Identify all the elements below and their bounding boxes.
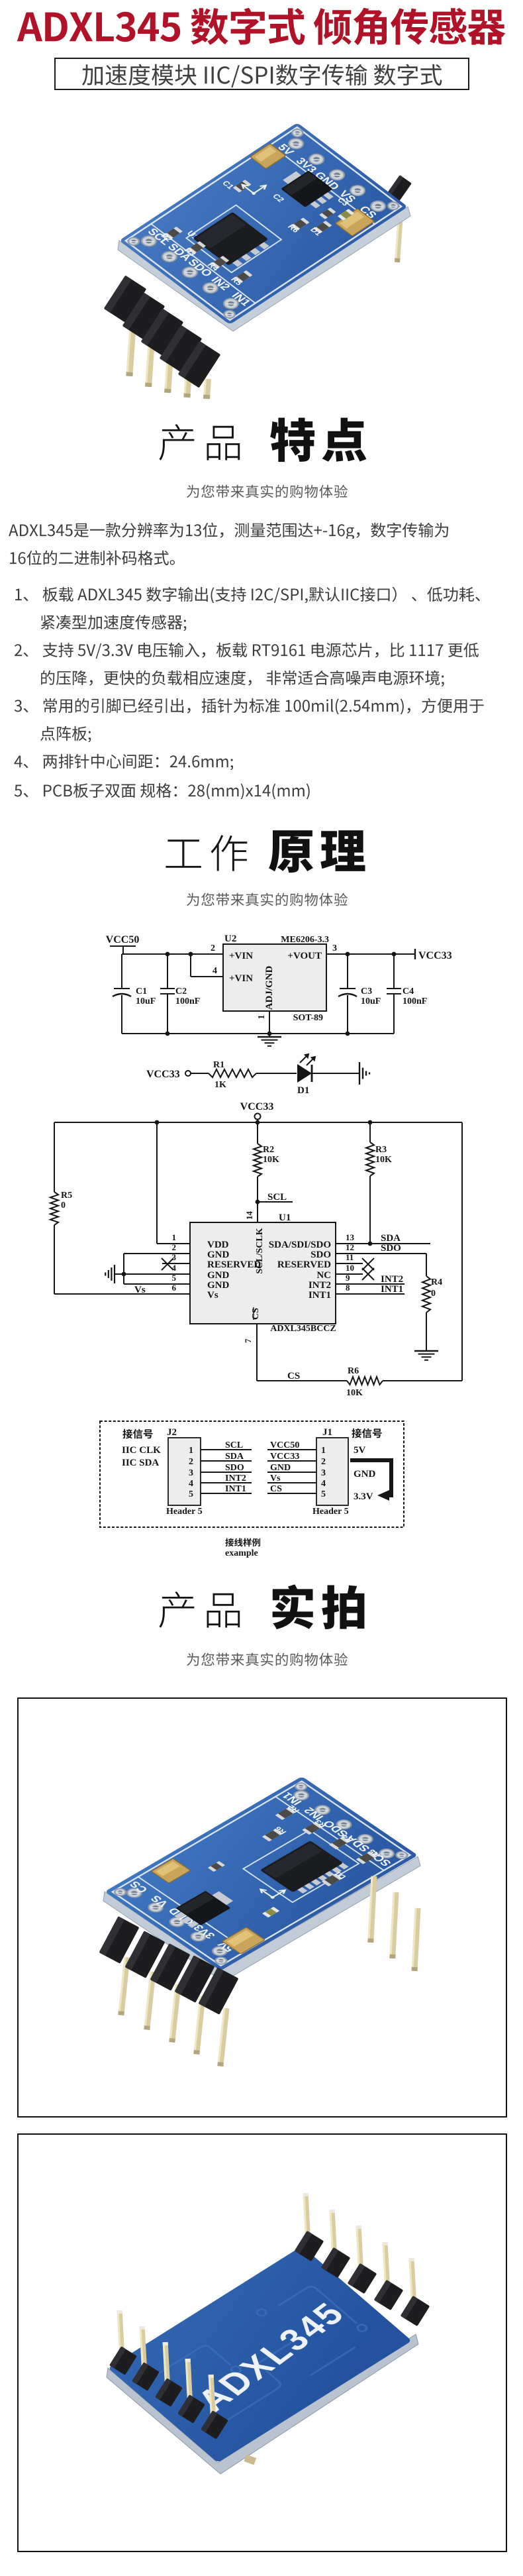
svg-text:2: 2 xyxy=(321,1457,326,1467)
top right header pins up xyxy=(303,2193,310,2237)
junction top rail pin1 branch xyxy=(155,1120,160,1125)
resistor R5 0 xyxy=(50,1191,72,1225)
junction SDA R3 xyxy=(368,1242,373,1246)
header J2 xyxy=(166,1427,203,1517)
svg-text:0: 0 xyxy=(61,1201,66,1210)
wire SDO xyxy=(336,1254,426,1276)
svg-text:Vs: Vs xyxy=(134,1285,146,1295)
wire R6 to right loop xyxy=(383,1380,462,1381)
svg-text:+VIN: +VIN xyxy=(229,973,253,984)
svg-text:VCC33: VCC33 xyxy=(270,1452,299,1462)
svg-text:1: 1 xyxy=(189,1446,193,1456)
junction output rail at C3 xyxy=(346,952,350,957)
svg-text:0: 0 xyxy=(431,1289,436,1299)
ground below R4 xyxy=(414,1351,438,1360)
wire ground rail xyxy=(122,1033,394,1034)
capacitor C4 xyxy=(387,954,427,1034)
svg-text:7: 7 xyxy=(243,1338,253,1343)
svg-text:SCL/SCLK: SCL/SCLK xyxy=(255,1228,265,1273)
svg-text:SDA: SDA xyxy=(381,1233,401,1244)
svg-text:12: 12 xyxy=(346,1242,354,1252)
wire R1 to D1 xyxy=(256,1073,297,1074)
svg-text:3.3V: 3.3V xyxy=(354,1491,373,1502)
wires J2 pins xyxy=(201,1450,252,1493)
svg-text:VCC33: VCC33 xyxy=(418,950,452,961)
junction SCL xyxy=(256,1200,260,1205)
wire VCC33 to R1 xyxy=(191,1073,209,1074)
svg-text:4: 4 xyxy=(172,1263,177,1273)
svg-text:SDA/SDI/SDO: SDA/SDI/SDO xyxy=(269,1240,331,1250)
svg-text:13: 13 xyxy=(346,1232,355,1242)
svg-text:2: 2 xyxy=(172,1242,177,1252)
junction top rail VCC33 xyxy=(256,1120,260,1125)
svg-text:10K: 10K xyxy=(263,1155,279,1165)
svg-text:SDA: SDA xyxy=(225,1452,244,1462)
svg-text:GND: GND xyxy=(270,1463,291,1473)
wires J1 pins xyxy=(267,1450,316,1493)
junction output rail at C4 xyxy=(392,952,397,957)
pin 1 of U2 to ground xyxy=(257,1011,269,1037)
regulator U2 ME6206-3.3 xyxy=(223,934,329,1023)
pcb board top face xyxy=(119,123,408,325)
right pin xyxy=(385,175,412,204)
svg-text:4: 4 xyxy=(321,1479,326,1489)
svg-text:IIC CLK: IIC CLK xyxy=(122,1445,161,1456)
junction GND bus xyxy=(122,1272,126,1277)
label 接信号 right xyxy=(352,1428,381,1438)
net labels J2 side xyxy=(225,1440,246,1494)
connector nub xyxy=(244,2455,256,2465)
board edge xyxy=(118,207,410,331)
svg-text:SCL: SCL xyxy=(267,1192,287,1203)
power net VCC33 output xyxy=(415,949,452,961)
thick arrow 3V3 to 3.3V xyxy=(350,1460,391,1501)
pin headers xyxy=(118,1957,130,2015)
resistor R3 10K xyxy=(366,1142,392,1176)
right pins xyxy=(367,1876,377,1943)
svg-text:R2: R2 xyxy=(263,1145,274,1155)
svg-text:INT2: INT2 xyxy=(309,1280,331,1291)
accelerometer chip xyxy=(231,259,242,267)
accelerometer chip xyxy=(297,1886,308,1894)
junction top rail R3 xyxy=(368,1120,373,1125)
svg-text:INT1: INT1 xyxy=(225,1484,246,1494)
label 接线样例 xyxy=(225,1538,260,1547)
pin 10 no-connect stub xyxy=(336,1268,374,1280)
ground at U1 GND pins xyxy=(105,1265,115,1283)
svg-text:1: 1 xyxy=(321,1446,326,1456)
svg-text:1K: 1K xyxy=(214,1080,226,1090)
svg-text:2: 2 xyxy=(189,1457,193,1467)
board edge xyxy=(107,2334,418,2474)
svg-text:5: 5 xyxy=(189,1489,193,1499)
svg-text:R5: R5 xyxy=(61,1191,72,1201)
wire VCC33 to R2 xyxy=(257,1122,258,1144)
svg-text:SOT-89: SOT-89 xyxy=(293,1013,323,1023)
board edge xyxy=(103,1856,420,1982)
svg-text:VCC50: VCC50 xyxy=(270,1440,299,1450)
svg-text:C2: C2 xyxy=(175,987,187,996)
svg-text:J2: J2 xyxy=(167,1427,177,1438)
svg-text:U1: U1 xyxy=(279,1212,291,1223)
svg-text:10: 10 xyxy=(346,1263,354,1273)
svg-text:11: 11 xyxy=(346,1252,354,1262)
svg-text:4: 4 xyxy=(189,1479,193,1489)
pcb board back face xyxy=(108,2246,412,2463)
power net VCC33 LED feed xyxy=(146,1069,191,1080)
svg-text:CS: CS xyxy=(287,1371,300,1381)
svg-text:example: example xyxy=(225,1548,258,1558)
pin headers xyxy=(126,313,137,376)
svg-text:VCC33: VCC33 xyxy=(240,1101,274,1112)
svg-text:Header 5: Header 5 xyxy=(166,1507,203,1517)
svg-text:INT2: INT2 xyxy=(381,1274,403,1285)
svg-text:100nF: 100nF xyxy=(403,996,427,1006)
wire GND bus pins 2 4 5 xyxy=(115,1254,190,1284)
svg-text:GND: GND xyxy=(207,1250,230,1260)
svg-text:CS: CS xyxy=(270,1484,282,1494)
wire pin4 branch xyxy=(191,954,223,977)
pcb board top face xyxy=(105,1776,418,1970)
svg-text:RESERVED: RESERVED xyxy=(207,1260,261,1270)
regulator chip xyxy=(174,1911,187,1919)
wire VDD branch xyxy=(157,1122,190,1244)
svg-text:ADXL345BCCZ: ADXL345BCCZ xyxy=(270,1324,336,1334)
svg-text:SDO: SDO xyxy=(225,1463,244,1473)
wire R4 to ground xyxy=(426,1313,427,1351)
wire INT1 xyxy=(336,1293,404,1295)
net labels J1 side xyxy=(270,1440,299,1494)
svg-text:8: 8 xyxy=(346,1283,350,1293)
pin 11 no-connect stub xyxy=(336,1258,374,1270)
svg-text:ME6206-3.3: ME6206-3.3 xyxy=(281,935,329,945)
svg-text:IIC SDA: IIC SDA xyxy=(122,1458,159,1468)
pin 3 no-connect stub xyxy=(162,1258,190,1270)
svg-text:CS: CS xyxy=(251,1308,261,1320)
svg-text:3: 3 xyxy=(189,1468,193,1478)
resistor R6 10K xyxy=(346,1366,383,1398)
svg-text:10uF: 10uF xyxy=(361,996,381,1006)
svg-text:9: 9 xyxy=(346,1273,350,1283)
svg-text:U2: U2 xyxy=(224,934,236,944)
wire output rail pin 3 xyxy=(326,953,415,955)
ground after D1 xyxy=(359,1062,369,1085)
ground below U2 xyxy=(258,1037,281,1046)
label 接信号 left xyxy=(122,1429,152,1439)
svg-text:R1: R1 xyxy=(213,1060,224,1070)
resistor R4 0 xyxy=(422,1276,442,1313)
wire D1 to ground xyxy=(312,1073,359,1074)
bottom left header pins up xyxy=(117,2310,124,2353)
svg-text:Header 5: Header 5 xyxy=(312,1507,349,1517)
svg-text:14: 14 xyxy=(244,1211,254,1220)
svg-text:INT1: INT1 xyxy=(381,1284,403,1295)
wire left branch upper xyxy=(54,1122,55,1192)
wire input rail xyxy=(122,953,223,955)
svg-text:5V: 5V xyxy=(354,1445,366,1456)
svg-text:C1: C1 xyxy=(136,987,147,996)
svg-text:3: 3 xyxy=(321,1468,326,1478)
junction on input rail at C2 xyxy=(166,952,170,957)
svg-text:INT1: INT1 xyxy=(309,1290,331,1301)
svg-text:Vs: Vs xyxy=(207,1290,218,1301)
svg-text:ADJ/GND: ADJ/GND xyxy=(264,966,275,1010)
wire R2 to SCL junction and pin 14 xyxy=(257,1177,258,1222)
svg-text:GND: GND xyxy=(207,1280,230,1291)
wire VCC33 to R3 xyxy=(369,1122,371,1142)
svg-text:RESERVED: RESERVED xyxy=(277,1260,331,1270)
power net VCC50 xyxy=(106,934,140,954)
svg-text:R6: R6 xyxy=(348,1366,359,1376)
wire top rail xyxy=(54,1122,462,1123)
junction on input rail at pin4 branch xyxy=(189,952,193,957)
wire INT2 xyxy=(336,1283,404,1285)
LED D1 xyxy=(297,1053,316,1096)
svg-text:GND: GND xyxy=(207,1270,230,1281)
resistor R2 10K xyxy=(254,1144,279,1177)
junction ground rail at U2 pin1 xyxy=(267,1032,272,1036)
net label SCL with stub xyxy=(258,1192,293,1203)
svg-text:C4: C4 xyxy=(403,987,414,996)
svg-text:R3: R3 xyxy=(375,1145,387,1155)
junction ground rail at C3 xyxy=(346,1032,350,1036)
wire right loop xyxy=(461,1122,463,1381)
wire SDA xyxy=(336,1243,430,1244)
svg-text:SDO: SDO xyxy=(310,1250,331,1260)
svg-text:SDO: SDO xyxy=(381,1243,401,1254)
svg-text:R4: R4 xyxy=(431,1277,442,1287)
svg-text:+VIN: +VIN xyxy=(229,951,253,961)
power net VCC33 main xyxy=(240,1101,274,1122)
svg-text:NC: NC xyxy=(316,1270,331,1281)
capacitor C2 xyxy=(160,954,200,1034)
dashed example box xyxy=(100,1421,404,1527)
svg-text:J1: J1 xyxy=(322,1427,332,1438)
svg-text:C3: C3 xyxy=(361,987,372,996)
svg-text:GND: GND xyxy=(354,1469,376,1479)
header J1 xyxy=(312,1427,349,1517)
junction ground rail at C2 xyxy=(166,1032,170,1036)
regulator chip xyxy=(309,200,320,208)
svg-text:1: 1 xyxy=(172,1232,177,1242)
svg-text:2: 2 xyxy=(211,943,215,953)
wire R3 to SDA xyxy=(369,1176,371,1244)
svg-text:VCC33: VCC33 xyxy=(146,1069,180,1080)
svg-text:1: 1 xyxy=(257,1015,267,1020)
svg-text:10K: 10K xyxy=(346,1388,363,1398)
svg-text:4: 4 xyxy=(213,966,217,976)
svg-text:Vs: Vs xyxy=(270,1474,281,1483)
svg-text:VDD: VDD xyxy=(207,1240,229,1250)
svg-text:SCL: SCL xyxy=(225,1440,243,1450)
svg-text:5: 5 xyxy=(321,1489,326,1499)
capacitor C3 xyxy=(338,954,381,1034)
svg-text:INT2: INT2 xyxy=(225,1474,246,1483)
svg-text:VCC50: VCC50 xyxy=(106,934,140,945)
wire CS from pin 7 xyxy=(257,1324,347,1381)
svg-text:10K: 10K xyxy=(375,1155,392,1165)
svg-text:10uF: 10uF xyxy=(136,996,156,1006)
svg-text:+VOUT: +VOUT xyxy=(287,951,322,961)
resistor R1 1K xyxy=(209,1060,256,1090)
accelerometer U1 ADXL345BCCZ xyxy=(190,1212,336,1334)
capacitor C1 xyxy=(113,954,156,1034)
wire left branch lower to Vs xyxy=(54,1225,190,1294)
svg-text:3: 3 xyxy=(332,943,337,953)
svg-text:100nF: 100nF xyxy=(175,996,200,1006)
svg-text:D1: D1 xyxy=(297,1085,309,1096)
